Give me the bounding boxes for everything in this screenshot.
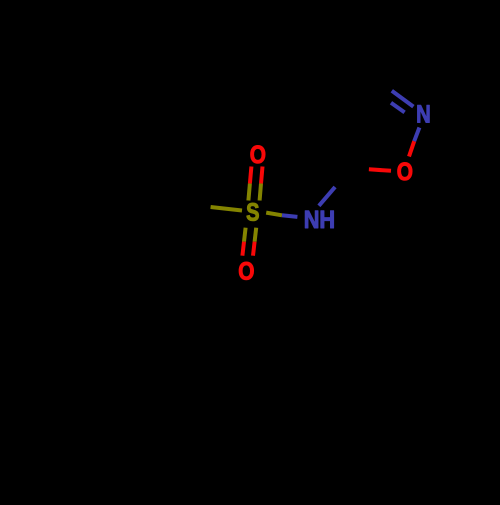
bond C3=N2 inner line (carbon half invisible, blue half) xyxy=(377,93,404,112)
bond C3-CH3 (carbon, invisible) xyxy=(352,32,370,75)
bond S-CH3 (olive half from S, carbon half invisible) xyxy=(172,203,243,211)
bond C4-C5 of ring (carbon, invisible) xyxy=(342,111,350,168)
bond N(H)-C5 (blue half, carbon half invisible) xyxy=(319,168,350,206)
bond S=O top, line 1 xyxy=(248,167,251,201)
svg-text:NH: NH xyxy=(304,206,335,234)
bond S=O bottom, line 1 xyxy=(242,228,245,256)
bond C3=N2 main line (carbon half invisible, blue half to N) xyxy=(370,75,413,107)
svg-text:O: O xyxy=(238,257,254,285)
bond S-N(H) (olive half then blue half) xyxy=(266,213,297,217)
bond S=O top, line 2 xyxy=(260,167,263,201)
svg-text:S: S xyxy=(246,199,259,227)
svg-text:N: N xyxy=(416,101,431,129)
bond O1-N2 of isoxazole (red half then blue half) xyxy=(409,128,419,157)
bond C5-O1 (carbon half invisible, red half to ring O) xyxy=(350,168,391,171)
svg-text:O: O xyxy=(250,141,266,169)
bond C3-C4 of ring (carbon, invisible) xyxy=(342,75,371,111)
bond S=O bottom, line 2 xyxy=(253,228,256,256)
svg-text:O: O xyxy=(397,158,413,186)
